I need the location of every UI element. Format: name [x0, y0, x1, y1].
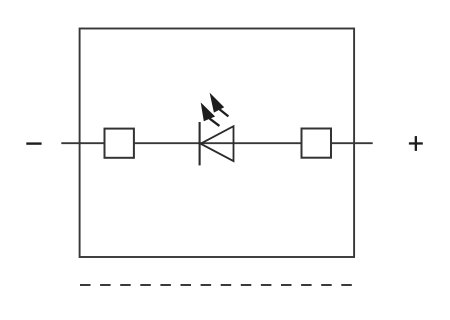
- LED cathode bar: [199, 122, 201, 165]
- LED light arrow left: [201, 102, 220, 126]
- clamp square right: [302, 129, 332, 158]
- wire from left clamp to right clamp through LED: [134, 142, 302, 144]
- clamp square left: [105, 129, 134, 158]
- terminal - (minus): [26, 142, 41, 144]
- terminal + (plus): [409, 136, 423, 151]
- module outline: [80, 29, 355, 258]
- LED light arrow right: [210, 93, 229, 117]
- wire from minus terminal to left clamp: [61, 142, 104, 144]
- wire from right clamp to plus terminal: [331, 142, 373, 144]
- LED triangle: [201, 126, 234, 161]
- DIN rail dashed line: [80, 284, 352, 286]
